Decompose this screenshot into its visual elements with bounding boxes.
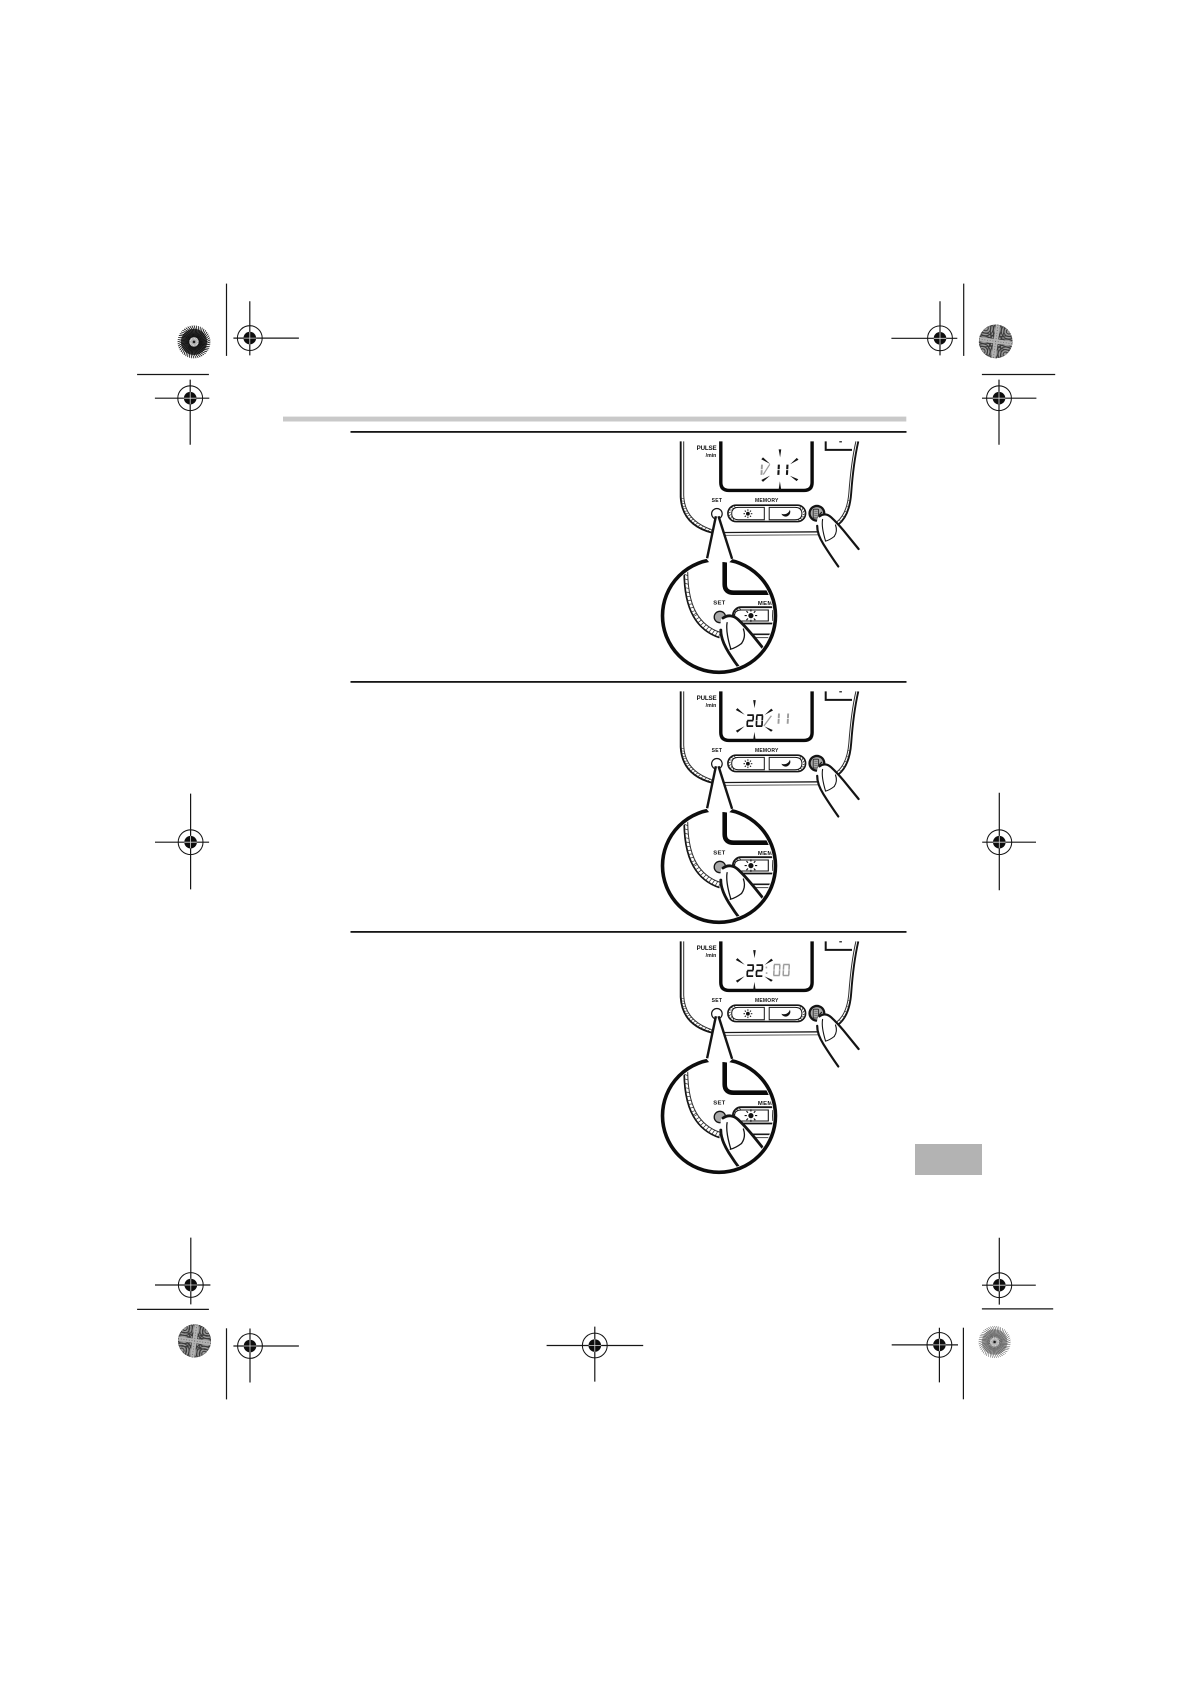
crop line BL vertical [226,1328,228,1399]
crop line TL horizontal [137,374,209,376]
registration mark top-left a [233,301,299,355]
registration mark top-left b [155,380,209,445]
crop line TR vertical [963,284,965,356]
display 2 : year 2011, 20 flashing [736,700,788,740]
crop line TL vertical [226,284,228,356]
registration mark bottom-right b [892,1328,958,1383]
whTR [962,307,1030,375]
registration mark bottom-right a [982,1238,1036,1305]
gray page tab right edge [915,1144,982,1175]
registration mark bottom-center [547,1327,644,1382]
section rule 3 [351,931,907,933]
section rule 2 [351,681,907,683]
crop line BL horizontal [137,1308,209,1310]
crop line BR horizontal [982,1308,1053,1310]
pwBR [979,1326,1011,1358]
registration mark mid-left [155,794,209,890]
registration mark bottom-left a [155,1238,210,1305]
page header gray bar [283,417,906,422]
device illustration section 2 [663,691,859,925]
registration mark mid-right [982,793,1036,891]
registration mark top-right b [982,380,1036,445]
registration mark top-right a [891,301,957,355]
pwTL [178,325,211,358]
registration mark bottom-left b [233,1329,299,1383]
crop line TR horizontal [982,374,1055,376]
crop line BR vertical [962,1328,964,1400]
section rule 1 [351,431,907,433]
device illustration section 1 [663,441,859,675]
display 1 : date 1/11, day flashing [761,449,798,489]
display 3 : time 22:00, hour flashing [736,950,790,990]
device illustration section 3 [663,941,859,1175]
whBL [161,1307,229,1375]
